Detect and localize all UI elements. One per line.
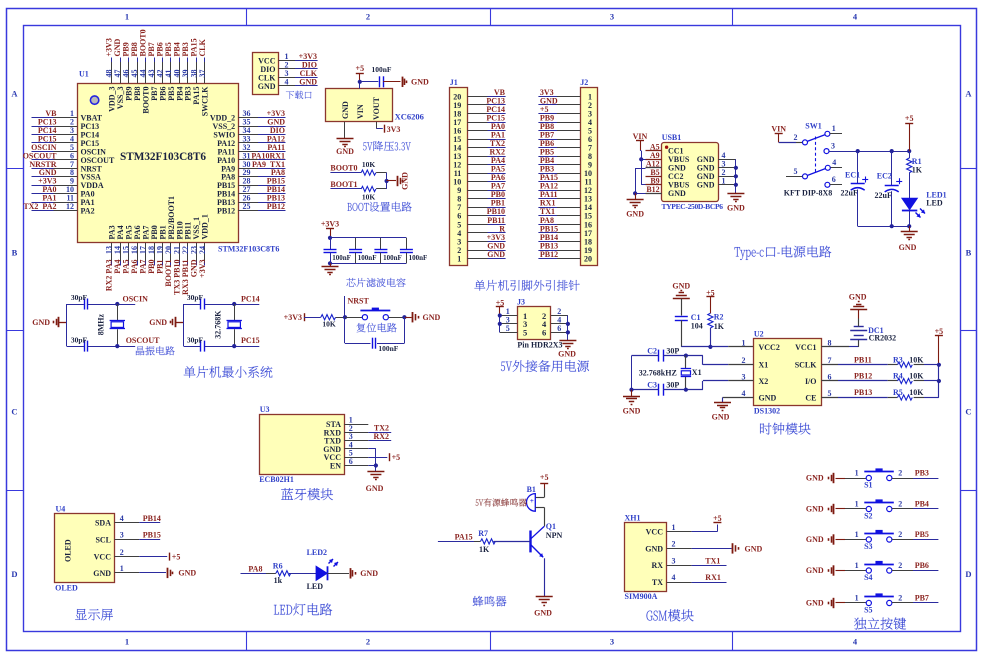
U2 pin2 stub [728, 364, 753, 366]
svg-text:6: 6 [832, 175, 836, 184]
U1 pin 3 PC14 / net PC14 [32, 134, 54, 136]
svg-text:U3: U3 [260, 405, 270, 414]
svg-text:J3: J3 [517, 298, 525, 307]
power +5 (U3) [389, 453, 391, 461]
svg-text:1: 1 [125, 12, 129, 22]
J1 pin 20 / net VB [467, 96, 487, 98]
junction PC14-crystal [232, 302, 236, 306]
svg-text:24: 24 [198, 246, 207, 254]
junction J3 pin1 [498, 313, 502, 317]
svg-text:25: 25 [243, 202, 251, 211]
wire VIN to SW1 pin2 [779, 142, 796, 144]
U1 pin 15 PA5 / net PA5 [128, 243, 130, 261]
svg-text:30P: 30P [666, 347, 679, 356]
net label PB11 wire [838, 364, 888, 366]
svg-text:VCC2: VCC2 [759, 343, 780, 352]
svg-text:OSCOUT: OSCOUT [126, 336, 160, 345]
regulator block title [363, 141, 411, 151]
svg-text:+5: +5 [356, 64, 365, 73]
svg-text:1K: 1K [912, 165, 923, 174]
switch SW1 lever 2-1 [807, 135, 825, 142]
svg-text:GND: GND [423, 313, 441, 322]
J2 pin 19 / net PB13 [557, 250, 580, 252]
svg-text:2: 2 [794, 133, 798, 142]
download-port pin 4 GND / net GND [279, 85, 296, 87]
U1 pin 34 SWIO / net DIO [238, 134, 258, 136]
wire junction to ground [387, 180, 396, 182]
U1 pin 32 PA11 / net PA11 [238, 151, 258, 153]
svg-text:10K: 10K [322, 320, 336, 329]
J1 pin 8 / net PB0 [467, 198, 487, 200]
U1 pin 46 PB9 / net PB9 [128, 58, 130, 63]
J3 block title [501, 360, 589, 372]
J2 pin 4 / net PB9 [557, 122, 580, 124]
U1 pin-1 marker [90, 96, 98, 104]
display title [75, 609, 113, 621]
J3 pin 3 [500, 323, 518, 325]
resistor R6 1k [276, 571, 291, 576]
ground (usb left) [627, 199, 644, 201]
U2 pin3 stub [728, 380, 753, 382]
svg-text:C: C [11, 407, 17, 417]
svg-text:GND: GND [623, 407, 641, 416]
wire node to capacitor [360, 81, 379, 83]
XH1 pin 4 TX [667, 582, 692, 584]
wire +5 node to VIN pin [359, 82, 361, 89]
net label BOOT1 wire [330, 188, 361, 190]
svg-text:100nF: 100nF [371, 65, 391, 74]
svg-text:GND: GND [697, 181, 715, 190]
J2 pin 17 / net PB15 [557, 232, 580, 234]
svg-text:PA2: PA2 [81, 207, 95, 216]
J1 pin 6 / net PB10 [467, 215, 487, 217]
resistor R5 10K (pullup PB13) [888, 397, 898, 399]
wire LED2 to ground [328, 573, 350, 575]
ground (LED2) [350, 568, 352, 578]
U3 pin 3 TXD [344, 440, 368, 442]
buzzer label 5V active [476, 498, 527, 506]
capacitor 100nF (filter 4) [406, 238, 408, 249]
capacitor C2 30P [658, 350, 660, 362]
svg-text:10K: 10K [909, 372, 924, 381]
wire capacitor to ground [383, 81, 400, 83]
svg-text:X2: X2 [759, 377, 769, 386]
pushbutton (reset) [362, 315, 367, 320]
svg-text:+3V3: +3V3 [198, 260, 207, 278]
U1 pin 38 PA15 / net PA15 [196, 58, 198, 63]
ground (J3) [559, 340, 576, 342]
svg-text:TYPEC-250D-BCP6: TYPEC-250D-BCP6 [662, 202, 724, 211]
capacitor 100nF (filter 1) [330, 238, 332, 249]
svg-text:VIN: VIN [771, 125, 786, 134]
J2 pin 20 / net PB12 [557, 258, 580, 260]
svg-text:PA8: PA8 [248, 565, 262, 574]
USB1 pin A9 VBUS [646, 159, 662, 161]
svg-text:R6: R6 [273, 561, 283, 570]
wire R7 to base [494, 541, 531, 543]
wire to ground (usb left) [635, 193, 637, 199]
U1 pin 30 PA9 / net PA9 TX1 [238, 168, 258, 170]
U1 pin 35 VSS_2 / net GND [238, 126, 258, 128]
junction VCC2 node [708, 345, 712, 349]
svg-text:GND: GND [487, 250, 505, 259]
svg-text:1: 1 [457, 254, 461, 263]
U1 pin 8 VSSA / net GND [32, 176, 54, 178]
svg-text:PB14: PB14 [143, 514, 161, 523]
mcu U1 STM32F103C8T6 body [78, 84, 239, 243]
junction J3 pin4 [566, 322, 570, 326]
svg-text:+5: +5 [392, 453, 401, 462]
svg-text:10K: 10K [909, 388, 924, 397]
junction top bus [328, 236, 332, 240]
J2 pin 15 / net TX1 [557, 215, 580, 217]
J2 pin 10 / net PB3 [557, 173, 580, 175]
J1 pin 14 / net TX2 [467, 147, 487, 149]
svg-text:GND: GND [149, 318, 167, 327]
wire resistor to NRST junction [336, 317, 345, 319]
J2 pin 5 / net PB8 [557, 130, 580, 132]
J2 pin 12 / net PA12 [557, 190, 580, 192]
capacitor 100nF (filter 3) [380, 238, 382, 249]
svg-text:PB7: PB7 [915, 594, 929, 603]
svg-text:10K: 10K [362, 193, 376, 202]
crystal 32.768K [234, 304, 236, 320]
svg-text:3: 3 [120, 531, 124, 540]
USB1 pin B9 VBUS [646, 184, 662, 186]
junction 32k rail bottom [629, 388, 633, 392]
filter caps title [346, 278, 405, 287]
wire X1 bottom to pin3 [702, 381, 704, 390]
wire XH1 GND to ground [692, 548, 732, 550]
ground (32k rail) [631, 390, 633, 396]
led LED2 [316, 566, 327, 580]
J1 pin 15 / net PA1 [467, 139, 487, 141]
USB1 pin B12 GND [646, 193, 662, 195]
svg-text:30pF: 30pF [71, 335, 88, 344]
U1 pin 22 PB11 / net RX3 PB11 [187, 243, 189, 261]
USB1 pin A12 GND [646, 167, 662, 169]
svg-text:A: A [965, 89, 972, 99]
U1 pin 37 SWCLK / net CLK [204, 58, 206, 63]
U1 pin 19 PB1 / net PB1 [162, 243, 164, 261]
svg-text:4: 4 [285, 77, 289, 86]
svg-text:3: 3 [831, 142, 835, 151]
buttons title [854, 617, 906, 629]
wire OSCIN rail [67, 304, 84, 306]
resistor R7 1K [481, 539, 496, 544]
svg-text:GND: GND [849, 292, 867, 301]
svg-text:1: 1 [855, 561, 859, 570]
J2 pin 9 / net PB4 [557, 164, 580, 166]
wire +3V3 to resistor [304, 317, 321, 319]
ground (regulator) [337, 138, 354, 140]
svg-text:GND: GND [558, 349, 576, 358]
svg-text:100nF: 100nF [358, 254, 377, 262]
svg-text:3: 3 [610, 12, 614, 22]
wire emitter to ground [544, 558, 546, 597]
J1 pin 2 / net GND [467, 250, 487, 252]
svg-text:S1: S1 [864, 480, 872, 489]
svg-text:6: 6 [542, 328, 546, 338]
svg-text:GND: GND [411, 78, 429, 87]
svg-text:BOOT0: BOOT0 [330, 164, 357, 173]
junction PC15-crystal [232, 344, 236, 348]
net NRST vertical wire [344, 296, 346, 343]
ground (filter caps) [330, 263, 332, 266]
crystal X1 32.768kHZ [685, 356, 687, 369]
svg-text:GND: GND [626, 210, 644, 219]
svg-text:LED: LED [926, 199, 943, 208]
ground (input filter) [402, 77, 404, 87]
battery DC1 CR2032 [821, 346, 849, 348]
wire U3 GND pin to EN junction [368, 448, 376, 450]
svg-text:R4: R4 [893, 372, 903, 381]
J2 pin 13 / net PA11 [557, 198, 580, 200]
J3 pin 1 [500, 315, 518, 317]
capacitor 100nF (reset) [372, 338, 374, 349]
wire gnd bus (J3 right) [567, 316, 569, 341]
U4 pin 1 GND [114, 572, 139, 574]
svg-text:2: 2 [898, 561, 902, 570]
buzzer B1 5V active [526, 494, 535, 512]
svg-text:2: 2 [898, 468, 902, 477]
U2 pin 5 stub [821, 397, 838, 399]
svg-text:VIN: VIN [356, 104, 365, 119]
U1 pin 21 PB10 / net TX3 PB10 [179, 243, 181, 261]
svg-text:GND: GND [360, 569, 378, 578]
wire +5 to buzzer plus terminal [544, 489, 546, 498]
U1 pin 42 PB6 / net PB6 [162, 58, 164, 63]
svg-text:30pF: 30pF [187, 293, 204, 302]
svg-text:GND: GND [93, 569, 111, 578]
svg-text:PB5: PB5 [915, 530, 929, 539]
J1 pin 9 / net PA7 [467, 190, 487, 192]
svg-text:37: 37 [198, 70, 207, 78]
svg-text:GND: GND [336, 147, 354, 156]
buzzer title [473, 596, 507, 607]
svg-text:TX: TX [652, 578, 663, 587]
svg-text:U2: U2 [754, 329, 764, 338]
download-port pin 2 DIO / net DIO [279, 68, 296, 70]
junction LED bottom [907, 224, 911, 228]
resistor 10K (BOOT1) [361, 186, 376, 191]
svg-text:1K: 1K [714, 322, 725, 331]
wire ground to S5 [836, 602, 846, 604]
svg-text:Q1: Q1 [546, 522, 556, 531]
wire U4 GND to ground [139, 572, 166, 574]
svg-text:PB13: PB13 [854, 388, 872, 397]
svg-text:30pF: 30pF [71, 293, 88, 302]
U4 pin 2 VCC [114, 556, 139, 558]
svg-text:1: 1 [120, 564, 124, 573]
wire reset cap rail [345, 343, 371, 345]
crystal 8MHz [117, 304, 119, 320]
U1 pin 14 PA4 / net PA4 [120, 243, 122, 261]
capacitor 30pF (PC14) [200, 299, 202, 310]
capacitor EC2 22uF [891, 151, 893, 185]
wire 32k rail left (clock) [631, 356, 633, 390]
svg-text:100nF: 100nF [378, 344, 398, 353]
svg-text:RX2: RX2 [373, 432, 389, 441]
svg-text:XH1: XH1 [625, 514, 641, 523]
junction reset-gnd [402, 315, 406, 319]
J3 pin 6 [551, 332, 568, 334]
junction R1 top [907, 149, 911, 153]
svg-text:6: 6 [557, 324, 561, 333]
net label PB13 wire [838, 397, 888, 399]
filter caps top bus wire [330, 237, 406, 239]
svg-text:TX2 PA2: TX2 PA2 [23, 202, 56, 211]
wire button to gnd junction [388, 317, 404, 319]
svg-text:CE: CE [805, 393, 816, 402]
switch SW1 pin 1 [825, 131, 830, 136]
wire +5 pullup bus [938, 365, 940, 398]
svg-text:+5: +5 [540, 473, 549, 482]
J3 pin 5 [500, 332, 518, 334]
capacitor EC1 22uF [857, 151, 859, 184]
resistor 10K (BOOT0) [361, 170, 376, 175]
J1 pin 5 / net PB11 [467, 224, 487, 226]
svg-text:104: 104 [691, 322, 703, 331]
capacitor 30pF (OSCIN) [84, 299, 86, 310]
J1 pin 19 / net PC13 [467, 104, 487, 106]
J2 pin 3 / net +5 [557, 113, 580, 115]
wire ground to S1 [836, 478, 846, 480]
svg-text:2: 2 [672, 540, 676, 549]
wire BOOT0 resistor to junction [376, 172, 387, 174]
svg-text:B: B [966, 248, 972, 258]
svg-text:PB12: PB12 [217, 207, 235, 216]
junction shield 1 [734, 183, 738, 187]
svg-text:4: 4 [672, 573, 676, 582]
U4 pin 4 SDA [114, 522, 139, 524]
svg-text:BOOT1: BOOT1 [330, 180, 357, 189]
svg-text:GND: GND [299, 77, 317, 86]
U2 pin 7 stub [821, 364, 838, 366]
svg-text:GND: GND [366, 484, 384, 493]
svg-text:VDD_1: VDD_1 [201, 214, 210, 239]
connector USB1 TYPEC-250D-BCP6 body [662, 143, 719, 202]
wire U4 VCC to +5 [139, 556, 167, 558]
svg-text:5: 5 [794, 167, 798, 176]
svg-text:2: 2 [366, 12, 370, 22]
wire VIN to VBUS pins [640, 150, 641, 152]
U2 pin4 stub [723, 397, 754, 399]
J3 pin 4 [551, 323, 568, 325]
junction BOOT divider [385, 179, 389, 183]
svg-text:4: 4 [853, 637, 858, 647]
U1 pin 1 VBAT / net VB [32, 117, 54, 119]
wire X1 top to pin2 [702, 356, 704, 365]
J2 pin 16 / net PA8 [557, 224, 580, 226]
svg-text:GND: GND [645, 544, 663, 553]
J1 pin 17 / net PC15 [467, 122, 487, 124]
USB1 shield pin 4 GND [718, 159, 736, 161]
J1 pin 12 / net PA4 [467, 164, 487, 166]
svg-text:SCLK: SCLK [795, 361, 818, 370]
svg-text:OSCIN: OSCIN [123, 295, 149, 304]
svg-text:S3: S3 [864, 542, 872, 551]
svg-text:PB12: PB12 [540, 250, 558, 259]
wire VBUS A9 to B9 [641, 159, 643, 185]
ground (usb shield) [735, 193, 737, 194]
junction EC2 bottom [890, 224, 894, 228]
svg-text:5: 5 [506, 324, 510, 333]
junction X1 bottom [684, 388, 688, 392]
minimal system title [184, 366, 273, 378]
svg-text:J2: J2 [580, 78, 588, 87]
svg-text:OLED: OLED [55, 583, 78, 592]
capacitor 30pF (PC15) [200, 341, 202, 352]
svg-text:GND: GND [727, 204, 745, 213]
U1 pin 47 VSS_3 / net GND [120, 58, 122, 63]
wire 32k left rail [183, 304, 185, 346]
connector J2 body [581, 88, 598, 266]
bluetooth title [281, 488, 333, 500]
svg-text:PB4: PB4 [915, 500, 929, 509]
svg-text:R2: R2 [714, 312, 724, 321]
download-port title [286, 91, 312, 99]
J1 pin 11 / net PA5 [467, 173, 487, 175]
XH1 pin 1 VCC [667, 531, 692, 533]
svg-text:GND: GND [899, 243, 917, 252]
wire S1 to net label PB3 [892, 478, 913, 480]
U1 pin 13 PA3 / net RX2 PA3 [111, 243, 113, 261]
type-c block title [734, 246, 831, 260]
svg-text:32.768K: 32.768K [214, 310, 223, 339]
U1 pin 33 PA12 / net PA12 [238, 142, 258, 144]
connector download-port body [253, 53, 279, 95]
J2 pin 14 / net RX1 [557, 207, 580, 209]
J2 pin 18 / net PB14 [557, 241, 580, 243]
net label PB12 wire [838, 380, 888, 382]
svg-text:5: 5 [523, 328, 527, 338]
svg-text:EC1: EC1 [845, 171, 860, 180]
led LED1 [902, 198, 917, 209]
junction X1 top [684, 354, 688, 358]
U1 pin 39 PB3 / net PB3 [187, 58, 189, 63]
wire C1 to VCC2 [681, 320, 683, 347]
svg-text:S4: S4 [864, 573, 872, 582]
wire +5 bus (J3 left) [499, 316, 501, 333]
svg-text:ECB02H1: ECB02H1 [259, 475, 294, 484]
svg-text:PC14: PC14 [241, 295, 260, 304]
svg-text:PA15: PA15 [455, 533, 473, 542]
U1 pin 43 PB7 / net PB7 [154, 58, 156, 63]
svg-text:+3V3: +3V3 [284, 313, 302, 322]
capacitor 100nF (input filter) [379, 76, 381, 87]
wire PC14 rail [184, 304, 201, 306]
J1 pin 16 / net PA0 [467, 130, 487, 132]
reset block title [357, 323, 397, 332]
svg-text:RX: RX [651, 561, 663, 570]
svg-text:3: 3 [610, 637, 614, 647]
svg-text:3: 3 [672, 556, 676, 565]
wire C2 row [632, 355, 659, 357]
svg-text:4: 4 [832, 158, 836, 167]
junction EC1 top [856, 149, 860, 153]
U1 pin 36 VDD_2 / net +3V3 [238, 117, 258, 119]
svg-text:7: 7 [828, 356, 832, 365]
U1 pin 17 PA7 / net PA7 [145, 243, 147, 261]
svg-text:GND: GND [745, 544, 763, 553]
svg-text:100nF: 100nF [409, 254, 428, 262]
wire R2 to VCC2 [710, 328, 712, 347]
svg-text:PB12: PB12 [854, 372, 872, 381]
U1 pin 40 PB4 / net PB4 [179, 58, 181, 63]
U4 pin 3 SCL [114, 539, 139, 541]
svg-text:VOUT: VOUT [372, 96, 381, 120]
